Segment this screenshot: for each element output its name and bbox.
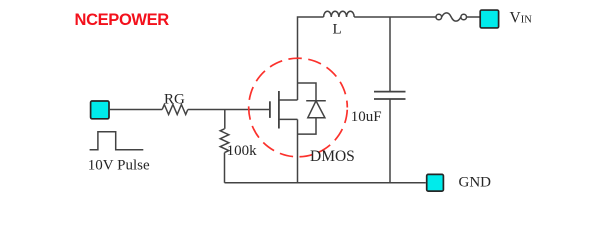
pulse waveform icon [90,132,144,150]
resistor 100k [220,129,229,153]
transistor DMOS: gate plate [269,101,271,118]
body diode cathode bar [306,100,326,102]
resistor RG [162,105,188,115]
svg-text:10V Pulse: 10V Pulse [88,158,150,174]
inductor L [324,11,355,17]
body diode triangle [308,101,325,118]
terminal VIN [480,10,498,28]
svg-text:DMOS: DMOS [310,148,355,165]
svg-text:10uF: 10uF [351,109,382,125]
fuse squiggle [442,13,461,21]
terminal GND [427,174,444,191]
svg-text:VIN: VIN [510,9,533,26]
svg-text:100k: 100k [227,143,258,159]
terminal 10V Pulse [91,101,109,119]
wire pulse to RG [110,109,163,111]
fuse circle left [436,14,442,20]
wire source to bottom rail [297,119,299,182]
wire capacitor top [389,17,391,92]
svg-text:NCEPOWER: NCEPOWER [75,11,170,29]
svg-text:GND: GND [459,175,492,191]
wire fuse to VIN terminal [467,16,481,18]
node junction gate/100k [224,110,226,129]
svg-text:RG: RG [164,91,185,107]
fuse circle right [461,14,467,20]
wire capacitor bottom [389,99,391,183]
transistor DMOS: drain stub [279,99,298,101]
wire top rail middle [354,16,436,18]
wire bottom rail [225,182,426,184]
red dashed highlight circle [249,58,348,157]
transistor DMOS: channel bar [278,91,280,129]
body diode branch top [298,83,317,101]
body diode branch bottom [298,118,317,134]
transistor DMOS: source stub [279,118,298,120]
svg-text:L: L [333,22,342,38]
wire RG to gate (through node) [188,109,269,111]
wire top rail left + drain vertical [298,17,324,100]
wire 100k to bottom rail [224,153,226,183]
capacitor 10uF plates [374,91,406,93]
